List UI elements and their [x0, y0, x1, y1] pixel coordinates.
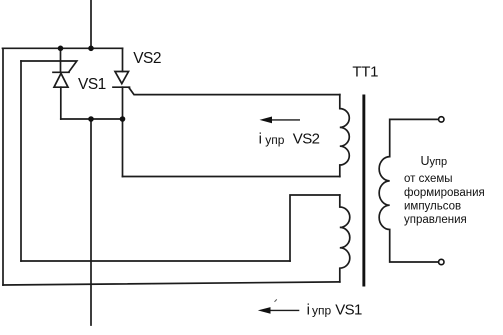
svg-text:формирования: формирования: [404, 187, 485, 199]
svg-text:VS1: VS1: [78, 76, 106, 93]
label: i upr VS2: [259, 131, 320, 148]
svg-text:Uупр: Uупр: [421, 154, 448, 168]
thyristor VS1: [53, 48, 69, 119]
wire: outer bottom return: [3, 282, 340, 285]
thyristor VS2: [113, 48, 130, 176]
svg-text:i: i: [259, 131, 262, 148]
transformer core: [362, 95, 365, 287]
transformer TT1 winding W2 (upper left): [340, 95, 350, 177]
svg-text:упр: упр: [265, 133, 284, 147]
wire: lower loop riser: [290, 195, 340, 261]
label: i upr VS1: [307, 302, 362, 319]
arrow: i upr VS2 direction: [260, 117, 301, 124]
terminal circle top: [439, 117, 444, 122]
wire: top bus: [3, 47, 123, 49]
wire: outer left vertical: [2, 48, 4, 285]
junction dot top bus at terminal: [88, 46, 94, 52]
svg-text:VS2: VS2: [133, 50, 161, 67]
svg-text:импульсов: импульсов: [404, 201, 461, 213]
wire: VS1-VS2 bottom link: [61, 118, 123, 120]
wire: upper loop bottom: [123, 176, 340, 178]
junction dot bottom link at VS2: [120, 116, 126, 122]
svg-text:VS1: VS1: [335, 302, 362, 319]
junction dot bottom link at terminal: [88, 116, 94, 122]
wire: inner left vertical: [20, 61, 22, 261]
svg-text:от схемы: от схемы: [404, 173, 453, 185]
transformer TT1 winding W1 (lower left): [340, 195, 350, 282]
svg-text:i: i: [307, 302, 310, 319]
svg-text:ТТ1: ТТ1: [352, 64, 378, 81]
wire: VS2 gate lead: [129, 87, 340, 94]
svg-text:VS2: VS2: [293, 131, 320, 148]
terminal circle bottom: [439, 259, 444, 264]
wire: VS1 gate lead: [21, 61, 77, 72]
wire: inner bottom: [21, 260, 290, 262]
arrow: i upr VS1 direction: [258, 299, 300, 313]
label: U upr: [404, 154, 485, 226]
svg-text:упр: упр: [312, 304, 331, 318]
junction dot top bus at VS1: [58, 46, 64, 52]
wire: bottom terminal lead: [90, 119, 92, 325]
wire: top terminal lead: [90, 0, 92, 48]
svg-text:управления: управления: [404, 214, 467, 226]
transformer TT1 secondary winding: [379, 119, 438, 262]
